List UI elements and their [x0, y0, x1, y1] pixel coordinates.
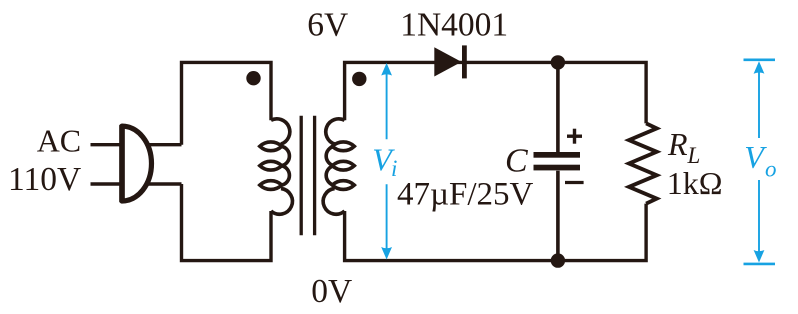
svg-text:1kΩ: 1kΩ: [667, 165, 723, 201]
svg-text:C: C: [505, 142, 528, 179]
svg-text:AC: AC: [37, 123, 81, 159]
svg-text:R: R: [667, 126, 688, 162]
svg-text:6V: 6V: [307, 7, 348, 44]
svg-text:110V: 110V: [8, 161, 81, 198]
svg-text:o: o: [765, 156, 777, 181]
svg-text:0V: 0V: [311, 273, 352, 310]
svg-text:i: i: [391, 156, 397, 181]
svg-text:1N4001: 1N4001: [400, 7, 508, 44]
svg-text:V: V: [744, 139, 767, 175]
svg-text:47µF/25V: 47µF/25V: [397, 177, 534, 213]
